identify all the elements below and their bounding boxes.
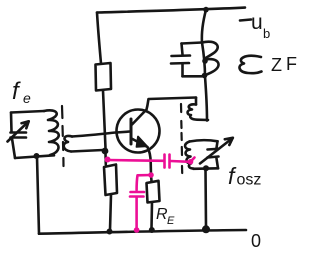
svg-text:e: e: [23, 90, 31, 106]
svg-text:f: f: [12, 78, 21, 105]
svg-text:Z: Z: [271, 55, 282, 75]
svg-text:0: 0: [251, 231, 261, 251]
svg-text:F: F: [286, 54, 297, 74]
svg-text:b: b: [263, 26, 270, 41]
svg-text:u: u: [251, 11, 263, 34]
svg-text:E: E: [167, 215, 175, 227]
svg-text:osz: osz: [237, 172, 262, 189]
